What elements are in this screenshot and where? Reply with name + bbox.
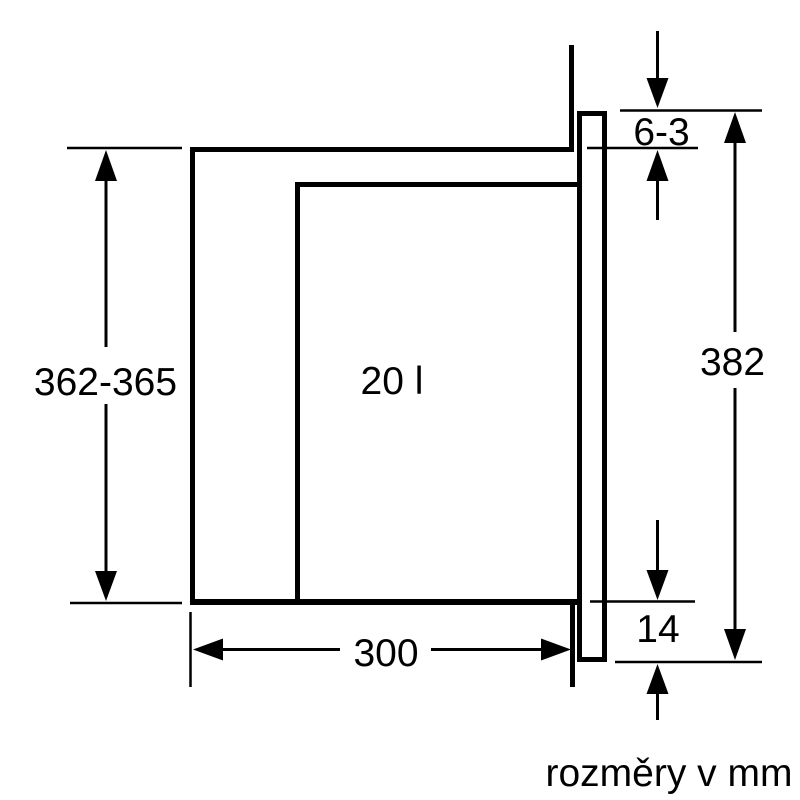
- svg-text:382: 382: [700, 341, 765, 384]
- svg-text:20 l: 20 l: [361, 360, 424, 403]
- svg-text:6-3: 6-3: [633, 111, 689, 154]
- svg-text:rozměry v mm: rozměry v mm: [546, 752, 793, 795]
- svg-text:300: 300: [353, 632, 418, 675]
- svg-text:362-365: 362-365: [34, 361, 177, 404]
- svg-text:14: 14: [636, 608, 679, 651]
